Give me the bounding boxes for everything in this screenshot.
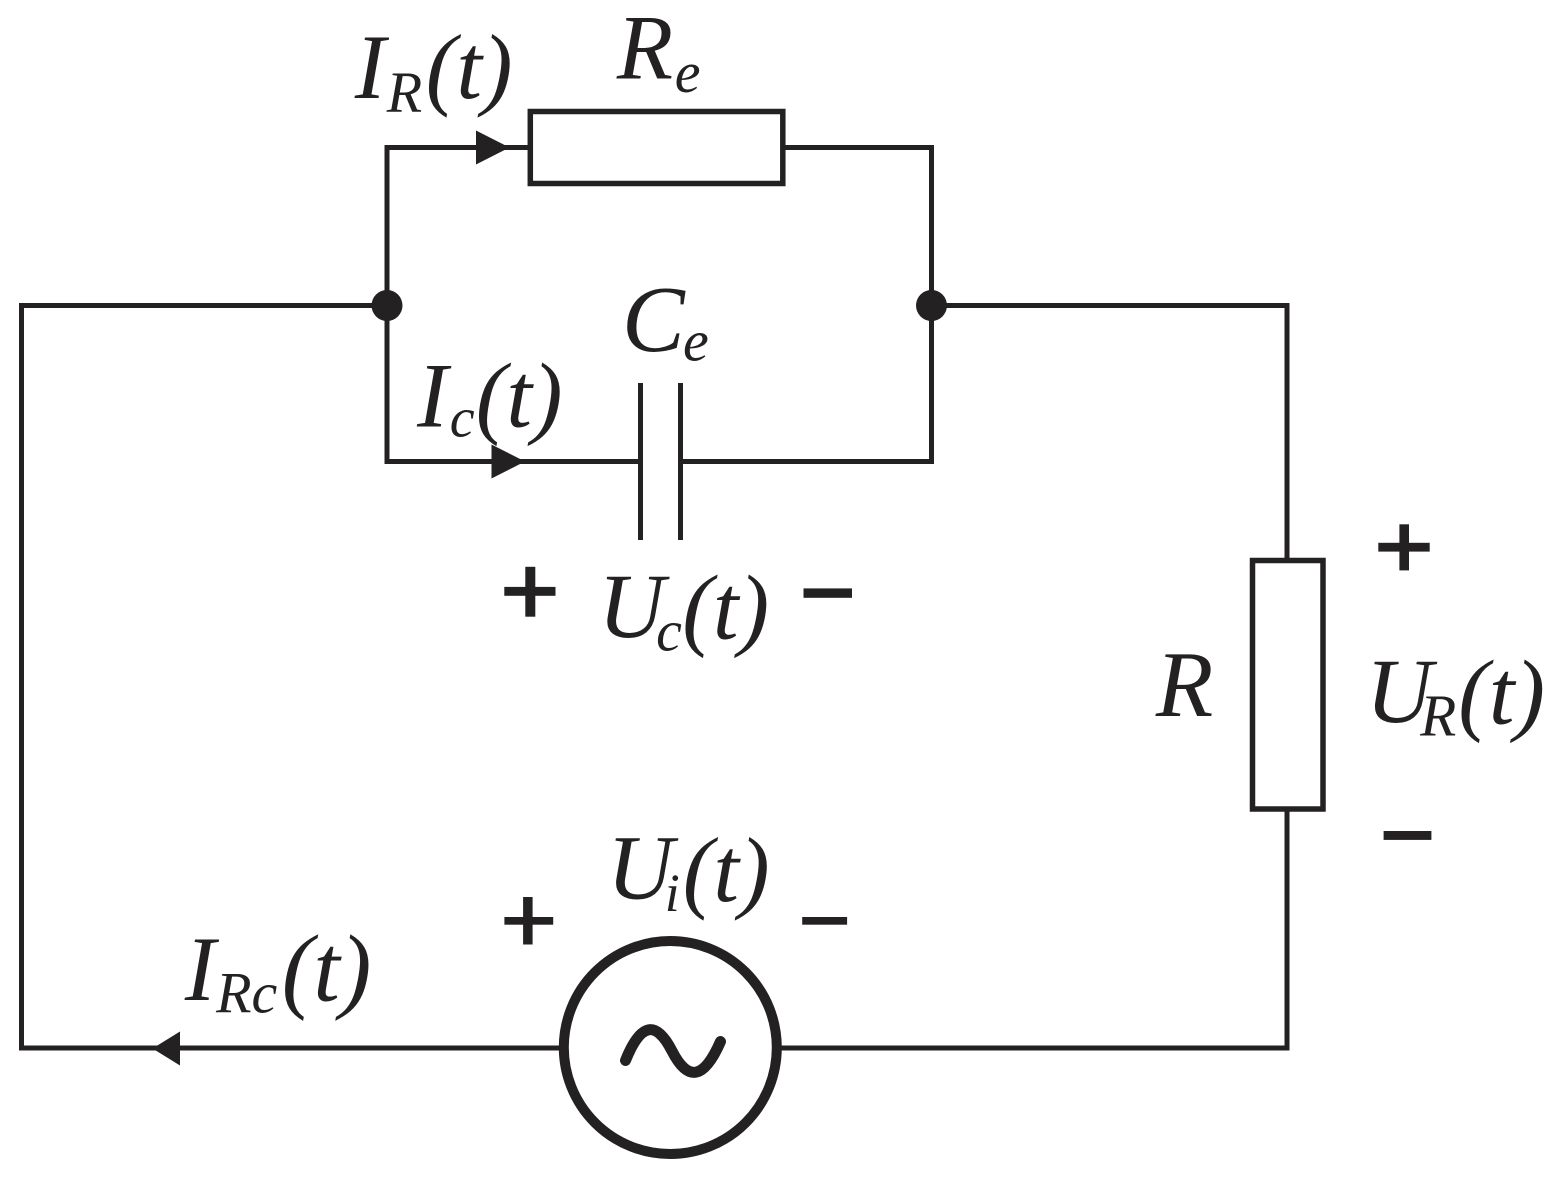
svg-text:i: i bbox=[665, 863, 680, 923]
svg-text:e: e bbox=[675, 40, 701, 105]
svg-text:(t): (t) bbox=[682, 557, 769, 659]
svg-text:R: R bbox=[616, 0, 673, 99]
svg-text:(t): (t) bbox=[683, 819, 770, 921]
svg-text:R: R bbox=[1155, 633, 1213, 737]
svg-text:I: I bbox=[416, 344, 452, 446]
svg-text:(t): (t) bbox=[282, 916, 372, 1022]
svg-text:R: R bbox=[386, 60, 422, 125]
svg-text:(t): (t) bbox=[426, 16, 513, 118]
svg-text:R: R bbox=[1419, 683, 1456, 749]
svg-text:(t): (t) bbox=[1458, 642, 1545, 744]
svg-text:C: C bbox=[622, 268, 686, 372]
svg-text:(t): (t) bbox=[476, 344, 563, 446]
svg-text:c: c bbox=[656, 599, 682, 664]
svg-text:Rc: Rc bbox=[215, 961, 277, 1026]
svg-text:c: c bbox=[450, 388, 475, 450]
svg-text:I: I bbox=[184, 918, 220, 1020]
svg-text:I: I bbox=[354, 16, 390, 118]
svg-text:e: e bbox=[683, 308, 709, 373]
